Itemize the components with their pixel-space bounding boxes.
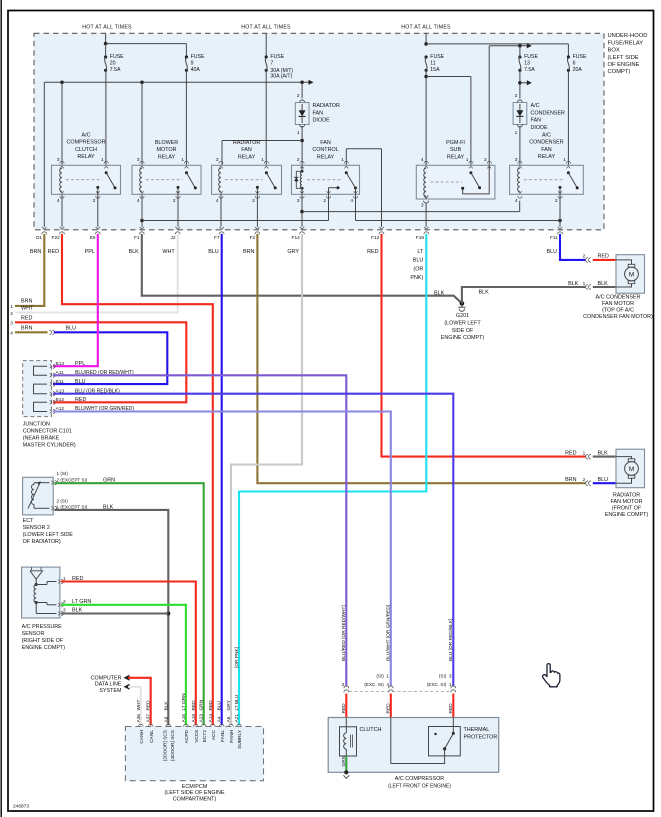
svg-text:COMPARTMENT): COMPARTMENT) <box>173 796 217 802</box>
svg-text:1 (SI): 1 (SI) <box>57 471 69 476</box>
wire BLU/RED from C101 pin A11 to A/C compressor clutch <box>53 375 346 686</box>
wire fuse 7 to radiator fan relay pin 1 <box>265 70 267 165</box>
svg-text:(EXC. SI): (EXC. SI) <box>364 682 384 687</box>
label A/C PRESSURE SENSOR <box>22 624 66 651</box>
svg-text:1: 1 <box>10 304 13 310</box>
ECM/PCM pin connectors and rotated pin labels <box>136 647 243 761</box>
wire blower motor relay pin 2 to J2 exit <box>177 194 179 227</box>
svg-text:A19: A19 <box>191 714 197 723</box>
svg-text:2: 2 <box>342 682 345 688</box>
svg-text:F2: F2 <box>250 235 256 241</box>
svg-text:LT: LT <box>417 249 424 255</box>
svg-text:DIODE: DIODE <box>531 125 548 131</box>
svg-text:BRN: BRN <box>21 299 32 305</box>
svg-text:BRN: BRN <box>21 326 32 332</box>
computer data line system arrows <box>91 675 130 694</box>
svg-text:20: 20 <box>110 60 116 66</box>
svg-text:3: 3 <box>57 157 60 163</box>
wire blower motor relay pin 4 to fan control relay pin 2 and F1 exit <box>140 194 328 227</box>
svg-text:PPL: PPL <box>85 249 95 255</box>
svg-text:HOT AT ALL TIMES: HOT AT ALL TIMES <box>401 25 451 31</box>
wire WHT from J2 to left connector stub 2 <box>10 234 177 317</box>
svg-text:COMPRESSOR: COMPRESSOR <box>67 140 106 146</box>
svg-text:(LOWER LEFT SIDE: (LOWER LEFT SIDE <box>23 532 74 538</box>
svg-text:HOT AT ALL TIMES: HOT AT ALL TIMES <box>82 25 132 31</box>
svg-text:4: 4 <box>10 330 13 336</box>
fuse 9 (40A) <box>185 54 205 73</box>
svg-text:1 (EXCEPT SI): 1 (EXCEPT SI) <box>57 504 88 509</box>
svg-text:A36: A36 <box>136 714 142 723</box>
svg-text:FAN MOTOR: FAN MOTOR <box>611 499 643 505</box>
svg-text:CONDENSER: CONDENSER <box>529 140 564 146</box>
connector pin F7 <box>208 227 224 255</box>
svg-text:CONDENSER FAN MOTOR): CONDENSER FAN MOTOR) <box>583 314 653 320</box>
wire fuse 20 to A/C compressor clutch relay pin 1 <box>105 70 107 165</box>
svg-text:RELAY: RELAY <box>158 154 176 160</box>
svg-text:B12: B12 <box>56 397 65 403</box>
svg-text:3: 3 <box>137 157 140 163</box>
wire BLK from F1 to ground G201 <box>142 234 462 304</box>
ground at A/C compressor case <box>343 770 349 778</box>
svg-text:BLU: BLU <box>413 258 424 264</box>
svg-text:THERMAL: THERMAL <box>464 727 490 733</box>
svg-text:PPL: PPL <box>75 361 85 367</box>
svg-text:A23: A23 <box>199 714 205 723</box>
wire PGM-FI sub relay pin 2 to fuse 13, with continuation arrow <box>489 43 532 165</box>
motor M2 radiator fan motor <box>616 449 645 488</box>
svg-text:SUB: SUB <box>450 147 461 153</box>
svg-text:FUSE: FUSE <box>191 54 205 60</box>
svg-text:BLU [OR RED/BLK]: BLU [OR RED/BLK] <box>448 619 454 661</box>
svg-text:RELAY: RELAY <box>538 154 556 160</box>
svg-text:PROTECTOR: PROTECTOR <box>464 735 498 741</box>
svg-text:B13: B13 <box>56 361 65 367</box>
svg-text:A/C: A/C <box>82 133 91 139</box>
svg-text:2 (SI): 2 (SI) <box>57 499 69 504</box>
wire RED connector to condenser fan motor <box>593 259 616 261</box>
svg-text:SENSOR: SENSOR <box>22 631 45 637</box>
svg-text:GRY: GRY <box>287 249 299 255</box>
fuse 7 (30A) <box>265 33 294 79</box>
svg-text:RED: RED <box>565 450 576 456</box>
svg-text:CLUTCH: CLUTCH <box>75 147 97 153</box>
fuse 20 (7.5A) <box>104 54 124 73</box>
svg-text:FAN: FAN <box>531 118 542 124</box>
wire WHT CAN H to ECM pin A36 <box>128 687 141 725</box>
svg-text:RELAY: RELAY <box>77 154 95 160</box>
svg-text:2: 2 <box>555 198 558 204</box>
ECT sensor 2 (thermistor) <box>23 477 57 515</box>
svg-text:BLU: BLU <box>75 379 86 385</box>
svg-text:BRN: BRN <box>565 477 576 483</box>
svg-text:3: 3 <box>297 198 300 204</box>
svg-text:2: 2 <box>297 93 300 99</box>
wire fuse 9 to blower motor relay pin 1 <box>185 70 187 165</box>
svg-text:COMPT): COMPT) <box>608 69 631 75</box>
svg-text:2: 2 <box>323 198 326 204</box>
svg-text:(EXC. SI): (EXC. SI) <box>427 682 447 687</box>
svg-text:RADIATOR: RADIATOR <box>613 492 640 498</box>
svg-text:ENGINE COMPT): ENGINE COMPT) <box>605 512 649 518</box>
connector pin F22 <box>48 227 65 255</box>
svg-text:(LOWER LEFT: (LOWER LEFT <box>444 320 481 326</box>
under-hood fuse/relay box (dashed enclosure) <box>34 33 604 230</box>
svg-text:20A: 20A <box>573 67 583 73</box>
connector pin F2 <box>243 227 260 255</box>
svg-text:FUSE: FUSE <box>573 54 587 60</box>
svg-text:A14: A14 <box>208 714 214 723</box>
svg-text:3: 3 <box>515 157 518 163</box>
svg-text:11: 11 <box>430 60 435 66</box>
svg-text:CANL: CANL <box>149 730 155 743</box>
svg-text:BLU: BLU <box>598 477 609 483</box>
svg-text:(OR: (OR <box>413 266 423 272</box>
fuse 11 (15A) <box>425 54 445 73</box>
svg-text:M: M <box>629 466 634 473</box>
svg-text:OF RADIATOR): OF RADIATOR) <box>23 539 61 545</box>
svg-text:CLUTCH: CLUTCH <box>360 727 382 733</box>
svg-text:BLU: BLU <box>66 326 77 332</box>
svg-text:GRN: GRN <box>199 699 205 710</box>
svg-text:BLK: BLK <box>163 701 169 711</box>
svg-text:A6: A6 <box>226 716 232 722</box>
svg-text:SENSOR 2: SENSOR 2 <box>23 525 50 531</box>
svg-text:HOT AT ALL TIMES: HOT AT ALL TIMES <box>241 25 291 31</box>
A/C condenser fan diode D <box>513 93 565 136</box>
svg-text:2: 2 <box>484 157 487 163</box>
svg-text:RED: RED <box>448 703 454 714</box>
wire rail to A/C compressor clutch relay pin 3 <box>61 82 63 165</box>
svg-text:2: 2 <box>252 198 255 204</box>
svg-text:PGM-FI: PGM-FI <box>446 140 465 146</box>
svg-text:4: 4 <box>57 198 60 204</box>
svg-text:RED: RED <box>208 700 214 711</box>
wire RED CAN L to ECM pin A37 <box>128 678 151 725</box>
svg-text:RED: RED <box>367 249 378 255</box>
svg-text:1: 1 <box>261 157 264 163</box>
motor M1 A/C condenser fan motor <box>616 255 645 294</box>
svg-text:2: 2 <box>10 311 13 317</box>
svg-text:F12: F12 <box>371 235 380 241</box>
svg-text:(LEFT FRONT OF ENGINE): (LEFT FRONT OF ENGINE) <box>388 783 451 789</box>
wire PGM-FI sub relay pin 3 to F16 exit <box>425 203 427 227</box>
wire RED from F22 down to ECM pin A14 (ACC) <box>62 234 213 725</box>
connector pin F11 <box>547 227 563 255</box>
wire RED from F12 to radiator fan motor pin 1 <box>382 234 586 457</box>
svg-text:1: 1 <box>101 157 104 163</box>
svg-text:ENGINE COMPT): ENGINE COMPT) <box>441 335 485 341</box>
svg-text:RED: RED <box>48 249 59 255</box>
svg-text:CONTROL: CONTROL <box>312 147 338 153</box>
svg-text:F1: F1 <box>134 235 140 241</box>
svg-text:M: M <box>629 271 634 278</box>
wire LT BLU from F16 down to ECM pin A21 (SUBRLY) <box>239 234 426 725</box>
svg-text:BLU: BLU <box>547 249 558 255</box>
wire rail to radiator fan diode pin 2 <box>301 82 303 98</box>
A/C compressor clutch coil <box>340 718 382 757</box>
svg-text:F7: F7 <box>214 235 220 241</box>
svg-text:RED: RED <box>191 700 197 711</box>
wire RED from A/C pressure sensor to ECM pin A19 (VCC) <box>61 582 196 726</box>
svg-text:(LEFT SIDE OF ENGINE: (LEFT SIDE OF ENGINE <box>164 790 225 796</box>
wire radiator fan relay pin 2 to F2 exit <box>256 194 258 227</box>
svg-text:GRY: GRY <box>226 699 232 710</box>
svg-text:SIDE OF: SIDE OF <box>452 328 474 334</box>
A/C compressor thermal protector switch <box>391 718 498 764</box>
svg-text:2: 2 <box>93 198 96 204</box>
wire fuse 11 to PGM-FI sub relay pins 4 and 1 <box>424 70 471 165</box>
svg-text:(FRONT OF: (FRONT OF <box>612 505 642 511</box>
relay K6 A/C condenser fan relay <box>510 133 584 204</box>
svg-text:JUNCTION: JUNCTION <box>23 422 50 428</box>
svg-text:FUSE: FUSE <box>270 54 284 60</box>
fuse 13 (7.5A) <box>518 54 538 73</box>
A/C compressor assembly box <box>328 718 499 773</box>
wire A/C condenser fan diode pin 1 to A/C condenser fan relay pin 4 <box>519 126 521 165</box>
svg-text:ECM/PCM: ECM/PCM <box>182 784 208 790</box>
wire BRN from D1 to left connector stub 1 <box>10 234 44 310</box>
svg-text:D1: D1 <box>36 235 42 241</box>
svg-text:2 (EXCEPT SI): 2 (EXCEPT SI) <box>57 477 88 482</box>
svg-text:RELAY: RELAY <box>447 154 465 160</box>
svg-text:3: 3 <box>421 203 424 209</box>
svg-text:RELAY: RELAY <box>238 154 256 160</box>
svg-text:4: 4 <box>137 198 140 204</box>
mouse cursor (hand pointer) <box>543 664 560 687</box>
relay K3 radiator fan relay <box>212 140 282 204</box>
svg-text:OF ENGINE: OF ENGINE <box>608 62 640 68</box>
svg-text:BLK: BLK <box>598 450 609 456</box>
svg-text:1: 1 <box>386 674 389 680</box>
svg-text:2: 2 <box>583 254 586 260</box>
wire BLK from ground G201 to A/C condenser fan motor pin 1 <box>462 281 586 304</box>
svg-text:BLU/RED [OR RED/WHT]: BLU/RED [OR RED/WHT] <box>341 605 347 661</box>
wire RED connector to A/C compressor (thermal protector return) <box>385 694 391 718</box>
connector pin J2 <box>162 227 180 255</box>
svg-text:DATA LINE: DATA LINE <box>95 682 122 688</box>
connector pin F1 <box>129 227 145 255</box>
svg-text:UNDER-HOOD: UNDER-HOOD <box>608 33 648 39</box>
svg-text:7.5A: 7.5A <box>110 67 121 73</box>
junction connector C101 (dashed box with jumper loops) <box>23 361 55 417</box>
svg-text:FUSE: FUSE <box>110 54 124 60</box>
svg-text:1: 1 <box>466 157 469 163</box>
svg-text:1: 1 <box>583 450 586 456</box>
svg-text:RED: RED <box>385 703 391 714</box>
connector pins at radiator fan motor <box>586 450 608 485</box>
wire radiator fan diode pin 1 to radiator fan relay pin 3 and fan control relay pin 2 <box>222 126 304 165</box>
wire BLK from ECT sensor 2 to sensor ground junction and ECM <box>54 510 170 725</box>
label ECT SENSOR 2 <box>23 518 74 545</box>
connector pin E6 <box>85 227 101 255</box>
svg-text:BLK: BLK <box>434 290 445 296</box>
label RADIATOR FAN MOTOR <box>605 492 649 518</box>
svg-text:A37: A37 <box>146 714 152 723</box>
svg-text:SUBRLY: SUBRLY <box>237 729 243 749</box>
svg-text:(TOP OF A/C: (TOP OF A/C <box>602 307 634 313</box>
ECM/PCM module (dashed box) <box>125 727 263 781</box>
svg-text:BLOWER: BLOWER <box>155 140 178 146</box>
wire BRN/BLU left connector stub 4 to junction connector C101 pin B11 <box>10 326 167 385</box>
relay K2 blower motor relay <box>132 140 201 204</box>
relay K1 A/C compressor clutch relay <box>52 133 121 204</box>
svg-text:FUSE: FUSE <box>524 54 538 60</box>
svg-text:2: 2 <box>583 477 586 483</box>
svg-text:A/C: A/C <box>542 133 551 139</box>
label A/C CONDENSER FAN MOTOR <box>583 294 653 320</box>
svg-text:GRN: GRN <box>341 755 347 766</box>
svg-text:ACC: ACC <box>211 729 217 740</box>
svg-text:(SI): (SI) <box>376 674 384 679</box>
svg-text:A/C: A/C <box>531 103 540 109</box>
label A/C COMPRESSOR <box>388 776 451 789</box>
svg-text:A16: A16 <box>181 714 187 723</box>
svg-text:SYSTEM: SYSTEM <box>99 688 122 694</box>
A/C pressure sensor <box>22 567 64 618</box>
wire A/C compressor clutch relay pin 2 to E6 exit <box>97 194 99 227</box>
svg-text:F16: F16 <box>416 235 425 241</box>
svg-text:FAN MOTOR: FAN MOTOR <box>602 301 634 307</box>
wire GRN from ECT sensor 2 to ECM pin A23 (ECT2) <box>54 483 204 725</box>
svg-text:2: 2 <box>515 93 518 99</box>
connector pin F12 <box>367 227 384 255</box>
bus rail from fuse 7 area feeding relay coils, with continuation arrow <box>44 80 313 227</box>
svg-text:BRN: BRN <box>30 249 41 255</box>
connector pins to A/C compressor (SI / EXC. SI) <box>342 674 456 693</box>
wire BLU from F7 down to ECM pin A4 (FANL) <box>221 234 223 725</box>
svg-text:FANL: FANL <box>220 730 226 742</box>
svg-text:BRN: BRN <box>243 249 254 255</box>
svg-text:2: 2 <box>297 157 300 163</box>
wire fan control relay pin 3 to A/C condenser fan relay pin 3 and F14 exit <box>300 194 520 227</box>
svg-text:246873: 246873 <box>13 804 29 810</box>
svg-text:FUSE/RELAY: FUSE/RELAY <box>608 40 644 46</box>
relay K4 fan control relay <box>292 140 360 204</box>
svg-text:ACPD: ACPD <box>184 729 190 743</box>
wire fan control relay pin 1 bridge to F12 exit <box>346 149 381 227</box>
svg-text:BLU: BLU <box>217 701 223 711</box>
svg-text:BLK: BLK <box>129 249 140 255</box>
label ECM/PCM <box>164 784 225 802</box>
svg-text:[OR PNK]: [OR PNK] <box>234 647 240 668</box>
relay K5 PGM-FI sub relay <box>416 140 495 209</box>
svg-text:6: 6 <box>573 60 576 66</box>
svg-text:1: 1 <box>341 157 344 163</box>
svg-text:WHT: WHT <box>21 306 34 312</box>
svg-text:3: 3 <box>10 320 13 326</box>
svg-text:ENGINE COMPT): ENGINE COMPT) <box>22 645 66 651</box>
wire BLU from F11 to A/C condenser fan motor pin 2 <box>560 234 586 260</box>
svg-text:RADIATOR: RADIATOR <box>313 103 340 109</box>
svg-text:3: 3 <box>216 157 219 163</box>
svg-text:BLK: BLK <box>479 289 490 295</box>
wire BLU connector to radiator fan motor <box>593 482 616 484</box>
svg-text:3: 3 <box>449 674 452 680</box>
page outer left rule <box>0 0 2 817</box>
wire fuse 13 to A/C condenser fan diode, with continuation arrow <box>518 70 532 98</box>
svg-text:F11: F11 <box>550 235 558 241</box>
wire A/C compressor clutch relay pin 4 to F22 exit <box>61 194 63 227</box>
svg-text:A21: A21 <box>234 714 240 723</box>
wire PPL from E6 to junction connector C101 pin B13 <box>53 234 98 366</box>
svg-text:4: 4 <box>515 198 518 204</box>
svg-text:FAN: FAN <box>320 140 331 146</box>
svg-text:CONDENSER: CONDENSER <box>531 110 566 116</box>
wire fan control relay pin 4 to A/C condenser fan relay pin 2 and F11 exit <box>356 194 562 227</box>
radiator fan diode D <box>295 93 340 136</box>
svg-text:7.5A: 7.5A <box>524 67 535 73</box>
ECT sensor 2 pin labels <box>57 471 116 510</box>
svg-text:RED: RED <box>341 703 347 714</box>
svg-text:40A: 40A <box>191 67 201 73</box>
wire BRN from F2 to radiator fan motor pin 2 <box>257 234 585 483</box>
svg-text:A/C CONDENSER: A/C CONDENSER <box>596 294 641 300</box>
svg-text:VCC6: VCC6 <box>194 730 200 743</box>
svg-text:CONNECTOR C101: CONNECTOR C101 <box>23 429 72 435</box>
connector pin D1 <box>30 227 47 255</box>
wire RED left connector stub 3 to junction connector C101 pin B12 <box>10 316 186 403</box>
connector pin F16 <box>410 227 428 281</box>
ground G201 <box>434 290 484 341</box>
svg-text:B11: B11 <box>56 379 65 385</box>
wire RED connector to A/C compressor clutch <box>341 694 347 718</box>
svg-text:RELAY: RELAY <box>317 154 335 160</box>
svg-text:LT GRN: LT GRN <box>181 693 187 711</box>
wire GRY from F14 down to ECM pin A6 (FANH) <box>231 234 302 725</box>
svg-text:BLU/WHT [OR GRN/RED]: BLU/WHT [OR GRN/RED] <box>385 605 391 661</box>
wire RED connector to A/C compressor thermal protector <box>448 694 454 718</box>
wire fuse 6 to A/C condenser fan relay pin 1 <box>567 70 569 165</box>
svg-text:E6: E6 <box>90 235 96 241</box>
svg-text:MASTER CYLINDER): MASTER CYLINDER) <box>23 443 76 449</box>
A/C pressure sensor pin labels <box>63 576 91 614</box>
label JUNCTION CONNECTOR C101 <box>23 422 76 449</box>
wire BLK from A/C pressure sensor to sensor ground junction <box>61 612 168 614</box>
wire BLK connector to radiator fan motor <box>593 456 616 458</box>
svg-text:4: 4 <box>350 198 353 204</box>
svg-text:15A: 15A <box>430 67 440 73</box>
svg-text:1: 1 <box>181 157 184 163</box>
svg-text:2: 2 <box>173 198 176 204</box>
svg-text:A9: A9 <box>163 716 169 722</box>
feed wire to fuses 20 and 9 <box>104 33 187 57</box>
label UNDER-HOOD FUSE/RELAY BOX <box>608 33 648 75</box>
svg-text:PNK): PNK) <box>410 275 423 281</box>
svg-text:FANH: FANH <box>229 729 235 742</box>
svg-text:A4: A4 <box>217 716 223 722</box>
wire GRN clutch to case ground <box>341 755 347 772</box>
svg-text:J2: J2 <box>170 235 175 241</box>
svg-text:CANH: CANH <box>139 729 145 743</box>
svg-text:4: 4 <box>386 682 389 688</box>
svg-text:F14: F14 <box>292 235 301 241</box>
wire BLU from C101 pin A13 to A/C compressor thermal protector <box>53 394 453 687</box>
svg-text:1: 1 <box>583 281 586 287</box>
svg-text:WHT: WHT <box>162 249 175 255</box>
svg-text:(RIGHT SIDE OF: (RIGHT SIDE OF <box>22 638 64 644</box>
svg-text:A/C PRESSURE: A/C PRESSURE <box>22 624 63 630</box>
svg-text:(LEFT SIDE: (LEFT SIDE <box>608 55 639 61</box>
rotated wire labels for compressor feed wires <box>341 605 454 661</box>
svg-text:9: 9 <box>191 60 194 66</box>
wire LT GRN from A/C pressure sensor to ECM pin A16 (ACPD) <box>61 605 186 725</box>
wire BLK connector to condenser fan motor <box>593 286 616 288</box>
svg-text:A/C COMPRESSOR: A/C COMPRESSOR <box>395 776 445 782</box>
svg-text:BLU: BLU <box>208 249 219 255</box>
svg-text:4: 4 <box>216 198 219 204</box>
svg-text:ECT2: ECT2 <box>202 730 208 743</box>
svg-text:RED: RED <box>75 397 86 403</box>
